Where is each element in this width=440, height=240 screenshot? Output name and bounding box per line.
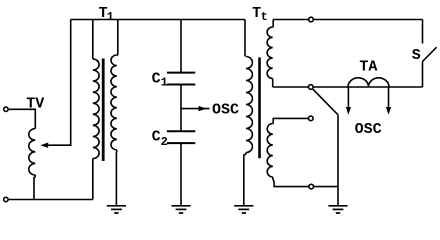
capacitor C2 — [167, 131, 195, 143]
wire top-right bus — [273, 19, 422, 21]
ground Tt primary — [234, 206, 253, 213]
svg-text:OSC: OSC — [212, 102, 239, 119]
wire Tt lower secondary bottom lead — [273, 177, 338, 187]
wire bottom-left bus — [6, 199, 93, 201]
wire Tt primary top lead — [244, 20, 246, 57]
wire T1 secondary top lead — [117, 20, 118, 56]
transformer Tt upper secondary winding — [267, 27, 273, 79]
wire top bus from variac wiper to Tt primary — [71, 19, 245, 21]
ground T1 secondary — [107, 206, 126, 213]
wire TV coil bottom lead — [34, 175, 35, 200]
changeover blade from bottom bus node — [312, 89, 338, 115]
ground selector — [328, 206, 347, 213]
core of T1 — [102, 59, 105, 162]
wire Tt upper secondary bottom lead — [272, 79, 274, 88]
wire capacitor branch upper — [180, 20, 182, 73]
wire from top-left terminal to TV coil — [6, 109, 35, 128]
current transformer TA humps — [348, 78, 389, 87]
wire T1 primary top lead — [92, 20, 94, 60]
svg-text:C: C — [152, 129, 161, 146]
wire bottom-right bus — [273, 86, 423, 88]
label T1 — [99, 5, 114, 24]
svg-text:TA: TA — [359, 59, 377, 76]
transformer T1 secondary winding — [111, 55, 117, 150]
wire variac wiper vertical and horizontal — [48, 20, 71, 146]
node lower winding bottom contact — [309, 184, 314, 189]
switch S upper contact — [422, 20, 424, 44]
wire Tt lower secondary top lead — [273, 118, 311, 123]
wire below C2 to ground — [180, 143, 182, 205]
svg-text:t: t — [261, 10, 268, 24]
wiper arrow into TV coil — [40, 143, 48, 148]
wire Tt primary bottom lead to ground — [244, 153, 246, 206]
transformer T1 primary winding — [93, 59, 99, 159]
transformer Tt primary winding — [246, 57, 252, 153]
label C2 — [152, 129, 168, 150]
svg-text:OSC: OSC — [355, 121, 382, 138]
switch S blade — [423, 47, 437, 61]
wire switch S lower lead — [422, 62, 424, 88]
autotransformer TV coil — [29, 129, 36, 175]
transformer Tt lower secondary winding — [267, 124, 273, 177]
terminal bottom-left — [4, 197, 8, 201]
label Tt — [252, 5, 268, 24]
svg-text:S: S — [412, 47, 421, 64]
label C1 — [152, 71, 168, 90]
svg-text:C: C — [152, 71, 161, 88]
capacitor C1 — [167, 73, 195, 85]
wire selector vertical to ground — [337, 115, 339, 206]
node lower winding top contact — [309, 116, 314, 121]
wire T1 primary bottom lead — [92, 159, 94, 200]
node top bus — [309, 17, 314, 22]
wire OSC tap with arrow — [181, 108, 210, 110]
svg-text:2: 2 — [161, 135, 168, 149]
wire Tt secondary upper top lead — [272, 20, 275, 28]
svg-text:1: 1 — [161, 76, 168, 90]
TA right arrow to OSC — [388, 87, 390, 107]
ground capacitor branch — [171, 206, 190, 213]
TA left arrow to OSC — [347, 87, 349, 107]
node bottom bus — [309, 85, 314, 90]
wire between C1 and C2 — [180, 85, 182, 132]
core of Tt — [258, 57, 261, 158]
svg-text:1: 1 — [107, 10, 114, 24]
wire T1 secondary bottom lead to ground — [115, 150, 117, 205]
svg-text:TV: TV — [26, 95, 44, 112]
terminal top-left — [4, 107, 8, 111]
